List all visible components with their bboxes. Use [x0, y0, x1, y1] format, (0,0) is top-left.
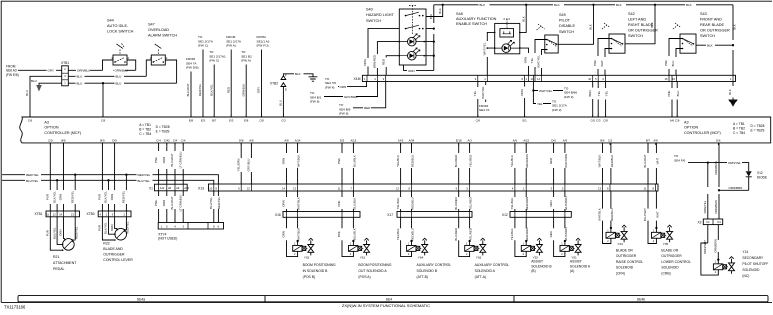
- svg-text:OR OUTRIGGER: OR OUTRIGGER: [700, 29, 730, 33]
- svg-text:SE4 F/6: SE4 F/6: [674, 158, 685, 162]
- wire BLU/BLK Y61 b: [352, 143, 354, 184]
- svg-text:(FW 2): (FW 2): [552, 108, 561, 112]
- wire XTB0 pin wires to pot: [102, 217, 115, 240]
- wire RED/BLU Y64 d: [411, 191, 413, 212]
- wire WHT/YEL pigtail FROM SE4 7A: [485, 82, 487, 103]
- svg-text:S42: S42: [628, 12, 635, 16]
- svg-text:CONTROL LEVER: CONTROL LEVER: [103, 258, 133, 262]
- svg-text:ORN/BRN: ORN/BRN: [714, 239, 718, 252]
- wire WHT/BLK Y62 b: [297, 143, 299, 184]
- svg-text:PUR: PUR: [46, 230, 50, 236]
- svg-text:PILOT SHUTOFF: PILOT SHUTOFF: [742, 262, 768, 266]
- wire YEL pilot sw: [535, 40, 547, 76]
- wire ORN aux right: [520, 48, 529, 75]
- svg-text:WHT/ORN: WHT/ORN: [564, 154, 568, 168]
- svg-text:ORN: ORN: [162, 157, 166, 163]
- svg-text:E/8: E/8: [244, 119, 249, 123]
- wire RED/ORN Y52 b: [525, 143, 527, 184]
- svg-text:RED/ORN: RED/ORN: [525, 197, 529, 210]
- svg-text:SECONDARY: SECONDARY: [742, 256, 764, 260]
- svg-text:14/3: 14/3: [398, 139, 404, 143]
- wire RED/YEL XTB1: [74, 175, 76, 211]
- svg-text:OPTION: OPTION: [684, 126, 698, 130]
- wire BLK pilot sw to bus: [558, 5, 593, 45]
- svg-text:RED/YEL: RED/YEL: [217, 196, 221, 209]
- svg-text:ORN/BRN: ORN/BRN: [714, 161, 718, 174]
- svg-text:GRY/BLU: GRY/BLU: [247, 159, 251, 172]
- wire PNK Y61 wrap: [342, 217, 353, 256]
- svg-text:ORN: ORN: [363, 59, 367, 65]
- solenoid Y52: [521, 245, 530, 251]
- svg-text:BLK/YEL: BLK/YEL: [104, 222, 108, 234]
- svg-text:X16: X16: [275, 213, 281, 217]
- svg-text:(B): (B): [531, 269, 535, 273]
- svg-text:BLK: BLK: [733, 24, 737, 30]
- svg-text:SWITCH: SWITCH: [700, 34, 715, 38]
- wire ORN Y62 c: [286, 191, 288, 212]
- svg-text:B/9: B/9: [100, 139, 105, 143]
- svg-text:YEL/BLK: YEL/BLK: [510, 198, 514, 210]
- svg-text:SOLENOID: SOLENOID: [616, 266, 634, 270]
- svg-text:BLK: BLK: [728, 89, 732, 95]
- svg-text:ORN: ORN: [282, 200, 286, 206]
- svg-text:SE4b: SE4b: [637, 297, 645, 301]
- svg-text:YEL/BLK: YEL/BLK: [396, 228, 400, 240]
- wire BLK aux right to bus: [520, 5, 526, 33]
- svg-text:RED/BLU: RED/BLU: [411, 228, 415, 241]
- lamp LED3: [495, 47, 520, 49]
- solenoid Y34: [606, 232, 615, 238]
- svg-text:C/6: C/6: [591, 119, 596, 123]
- wire RED/BLU Y34 b: [610, 143, 612, 184]
- lamp LED1: [399, 41, 426, 43]
- svg-text:D/8: D/8: [239, 139, 244, 143]
- svg-text:Y14: Y14: [742, 250, 748, 254]
- svg-text:ASSIST: ASSIST: [531, 260, 543, 264]
- svg-text:GRY/RED: GRY/RED: [344, 95, 358, 99]
- svg-text:BLK: BLK: [707, 44, 713, 48]
- svg-text:S43: S43: [700, 12, 707, 16]
- svg-text:XTB2: XTB2: [270, 82, 278, 86]
- wire XTB1 pin wires to pot: [50, 217, 62, 250]
- svg-text:S48: S48: [456, 12, 463, 16]
- svg-text:ORN: ORN: [524, 57, 528, 63]
- svg-text:C = TB4: C = TB4: [733, 131, 745, 135]
- svg-text:SWITCH: SWITCH: [628, 34, 643, 38]
- svg-text:DISABLE: DISABLE: [559, 24, 576, 28]
- svg-text:B/7: B/7: [646, 139, 651, 143]
- wire ORN Y62 wrap: [287, 217, 298, 256]
- svg-text:YEL: YEL: [604, 90, 608, 96]
- wire BLU/YEL bus: [2, 180, 214, 184]
- wire BLU/WHT Y35 wrap: [648, 191, 656, 244]
- svg-text:D4: D4: [717, 220, 721, 224]
- svg-text:(FW F/J): (FW F/J): [257, 44, 269, 48]
- svg-text:BLU/YEL: BLU/YEL: [26, 179, 39, 183]
- wire RED/YEL bus: [2, 175, 218, 184]
- svg-text:(FW 2): (FW 2): [564, 95, 573, 99]
- svg-text:DIODE: DIODE: [757, 176, 767, 180]
- wire BLU drop at 103: [102, 83, 104, 116]
- svg-text:X12: X12: [502, 213, 508, 217]
- svg-text:BLK/YEL: BLK/YEL: [52, 227, 56, 239]
- wire RED/BLU Y64 coil feed: [411, 217, 413, 245]
- svg-text:SOLENOID: SOLENOID: [742, 268, 760, 272]
- svg-text:ORN/WHT: ORN/WHT: [703, 240, 707, 254]
- svg-text:RED/YEL: RED/YEL: [26, 173, 39, 177]
- wire PUR XTB0: [101, 143, 103, 211]
- potentiometer R21: [63, 239, 75, 251]
- svg-text:BLU/RED: BLU/RED: [454, 228, 458, 241]
- svg-text:X13: X13: [198, 186, 204, 190]
- svg-text:OR OUTRIGGER: OR OUTRIGGER: [628, 29, 658, 33]
- svg-text:C = TB4: C = TB4: [139, 132, 151, 136]
- svg-text:(FW A): (FW A): [226, 44, 236, 48]
- svg-text:ZX(N)W-IN SYSTEM FUNCTIONAL SC: ZX(N)W-IN SYSTEM FUNCTIONAL SCHEMATIC: [342, 303, 430, 308]
- wire RED/ORN Y52 coil feed: [525, 217, 527, 245]
- svg-text:E/18: E/18: [456, 139, 462, 143]
- svg-text:BLU: BLU: [116, 82, 122, 86]
- wire RED/YEL XTB0: [125, 175, 127, 211]
- svg-text:OVERLOAD: OVERLOAD: [148, 28, 169, 32]
- svg-text:D/6: D/6: [716, 139, 721, 143]
- controller A3 OPTION CONTROLLER (MCF): [20, 117, 771, 143]
- svg-text:S49: S49: [559, 13, 566, 17]
- svg-text:YEL: YEL: [530, 57, 534, 63]
- svg-text:WHT/BLK: WHT/BLK: [297, 197, 301, 210]
- wire WHT/ORN Y51 coil feed: [564, 217, 566, 245]
- svg-text:C/2: C/2: [608, 139, 613, 143]
- svg-text:RED: RED: [549, 231, 553, 237]
- svg-text:A/15: A/15: [351, 139, 357, 143]
- svg-text:ORN/BRN: ORN/BRN: [714, 200, 718, 213]
- svg-text:A/6: A/6: [513, 139, 518, 143]
- svg-text:WHT/ORN: WHT/ORN: [564, 227, 568, 241]
- svg-text:BLK: BLK: [480, 3, 486, 7]
- wire YEL/BLK Y52 wrap: [515, 217, 526, 256]
- svg-text:Y35: Y35: [663, 242, 669, 246]
- svg-text:D/9: D/9: [112, 139, 117, 143]
- svg-text:RED/YEL: RED/YEL: [74, 226, 78, 239]
- svg-text:C/3: C/3: [281, 119, 286, 123]
- wire BLK/YEL XTB0: [108, 180, 110, 211]
- svg-text:YEL: YEL: [597, 90, 601, 96]
- wire RED/BLU Y34 coil feed: [610, 191, 612, 232]
- svg-text:AUXILIARY FUNCTION: AUXILIARY FUNCTION: [456, 17, 497, 21]
- svg-text:D/3: D/3: [340, 139, 345, 143]
- wire BLU to ground: [39, 83, 62, 85]
- svg-text:LT GRN/BLU: LT GRN/BLU: [178, 152, 182, 169]
- svg-text:E/1: E/1: [522, 119, 527, 123]
- wire WHT/BLK Y34 wrap: [603, 191, 611, 244]
- wire YEL/RED Y63 d: [469, 191, 471, 212]
- svg-text:BOOM POSITIONING: BOOM POSITIONING: [358, 263, 391, 267]
- svg-text:RED/YEL: RED/YEL: [138, 173, 151, 177]
- svg-text:(FW D/6): (FW D/6): [186, 66, 199, 70]
- svg-text:X3: X3: [698, 220, 702, 224]
- svg-text:RED/ORN: RED/ORN: [525, 154, 529, 167]
- svg-text:ORN/YEL: ORN/YEL: [703, 200, 707, 213]
- wire RED Y51 c: [553, 191, 555, 212]
- svg-text:E/3: E/3: [229, 119, 234, 123]
- svg-text:BLU/BLK: BLU/BLK: [352, 228, 356, 240]
- svg-text:A/8: A/8: [284, 139, 289, 143]
- wire YEL/GRN to X13: [240, 143, 242, 184]
- svg-text:WHT: WHT: [655, 211, 659, 218]
- svg-text:C/3: C/3: [596, 119, 601, 123]
- svg-text:FRONT AND: FRONT AND: [700, 18, 722, 22]
- svg-text:(POS A): (POS A): [358, 275, 370, 279]
- svg-text:IN SOLENOID B: IN SOLENOID B: [303, 269, 328, 273]
- svg-text:A12: A12: [160, 187, 165, 190]
- svg-text:RED: RED: [381, 59, 385, 65]
- lamp LED2: [399, 55, 426, 57]
- svg-text:BLU: BLU: [671, 61, 675, 67]
- svg-text:PNK: PNK: [154, 157, 158, 163]
- svg-text:Y64: Y64: [418, 255, 424, 259]
- svg-text:A/8: A/8: [249, 139, 254, 143]
- svg-text:RED: RED: [549, 158, 553, 164]
- svg-text:(NOT USED): (NOT USED): [158, 237, 177, 241]
- svg-text:PNK: PNK: [667, 90, 671, 96]
- svg-text:PNK: PNK: [154, 200, 158, 206]
- wire YEL/BLK Y52 c: [514, 191, 516, 212]
- svg-text:BLU: BLU: [279, 100, 283, 106]
- svg-text:C/8: C/8: [603, 119, 608, 123]
- svg-text:ASSIST: ASSIST: [570, 260, 582, 264]
- svg-text:A/15: A/15: [523, 139, 529, 143]
- svg-text:ORN: ORN: [282, 231, 286, 237]
- svg-text:(FW A): (FW A): [241, 59, 251, 63]
- svg-text:RED: RED: [549, 200, 553, 206]
- svg-text:LOWER CONTROL: LOWER CONTROL: [661, 260, 691, 264]
- wire RED Y51 a: [553, 143, 555, 184]
- svg-text:ORN/BLU: ORN/BLU: [115, 69, 128, 73]
- svg-text:C/4: C/4: [173, 139, 178, 143]
- svg-text:BLK: BLK: [521, 16, 525, 22]
- wire BLK hazard right 2: [426, 5, 443, 17]
- svg-text:C/6: C/6: [675, 119, 680, 123]
- svg-text:(FW 6): (FW 6): [339, 112, 348, 116]
- wire PNK s42: [598, 39, 612, 76]
- svg-text:WHT: WHT: [655, 157, 659, 164]
- wire ORN/YEL to X3: [707, 163, 709, 219]
- svg-text:OUTRIGGER: OUTRIGGER: [661, 254, 682, 258]
- svg-text:YEL/BLK: YEL/BLK: [396, 198, 400, 210]
- svg-text:PILOT: PILOT: [559, 19, 571, 23]
- wire BLU/WHT to X1: [174, 143, 176, 184]
- svg-text:HAZARD LIGHT: HAZARD LIGHT: [366, 13, 395, 17]
- wire LT GRN/BLU to X1: [182, 143, 184, 184]
- wire YEL bar to controller 3: [605, 82, 607, 117]
- wire BLU/BLK Y61 coil feed: [352, 217, 354, 245]
- wire ORN/YEL to diode: [688, 163, 749, 171]
- svg-text:(A): (A): [570, 269, 574, 273]
- wire BLU bar to controller: [676, 82, 678, 117]
- wire ORN/WHT X3 to Y14 wrap: [701, 225, 718, 276]
- svg-text:BLK/YEL: BLK/YEL: [52, 191, 56, 203]
- svg-text:RED/YEL: RED/YEL: [122, 190, 126, 203]
- wire WHT/BLK Y62 d: [297, 191, 299, 212]
- solenoid Y62: [293, 245, 302, 251]
- svg-text:OUTRIGGER: OUTRIGGER: [616, 254, 637, 258]
- svg-text:B/7: B/7: [212, 119, 217, 123]
- svg-text:BLK/WHT: BLK/WHT: [186, 83, 190, 96]
- potentiometer R22: [115, 228, 127, 240]
- svg-text:C/6: C/6: [28, 119, 33, 123]
- svg-text:BLADE AND: BLADE AND: [103, 247, 123, 251]
- svg-text:C/4: C/4: [181, 139, 186, 143]
- wire BLU s43: [676, 49, 683, 76]
- svg-text:BLU/WHT: BLU/WHT: [643, 208, 647, 221]
- svg-text:TX1173166: TX1173166: [4, 304, 26, 309]
- svg-text:BLK: BLK: [438, 8, 442, 14]
- wire YEL/BLK Y64 wrap: [401, 217, 412, 256]
- wire YEL/BLK Y64 a: [400, 143, 402, 184]
- wire YEL bar to controller 2: [597, 82, 599, 117]
- svg-text:BLU: BLU: [676, 91, 680, 97]
- svg-text:XTB1: XTB1: [61, 61, 69, 65]
- svg-text:RED/BLU: RED/BLU: [610, 208, 614, 221]
- wire YEL/RED Y63 b: [469, 143, 471, 184]
- svg-text:BLK: BLK: [295, 72, 301, 76]
- svg-text:Y62: Y62: [304, 255, 310, 259]
- svg-text:S44: S44: [107, 19, 114, 23]
- svg-text:SE4: SE4: [386, 297, 393, 301]
- svg-text:RED/YEL: RED/YEL: [198, 83, 202, 96]
- svg-text:BLADE OR: BLADE OR: [616, 249, 633, 253]
- svg-text:BLU: BLU: [77, 75, 83, 79]
- wire PNK bar to controller: [671, 82, 673, 117]
- wire BLU/RED Y63 a: [458, 143, 460, 184]
- svg-text:X1M: X1M: [354, 77, 361, 81]
- svg-text:ORN: ORN: [110, 224, 114, 230]
- wire BRN bar to controller: [592, 82, 594, 117]
- wire BLU/BLK Y61 d: [352, 191, 354, 212]
- wire PNK to X1: [158, 143, 160, 184]
- wire WHT/ORN Y51 d: [564, 191, 566, 212]
- svg-text:WHT: WHT: [600, 60, 604, 67]
- svg-text:(FW 4): (FW 4): [325, 85, 334, 89]
- wire PUR XTB1: [49, 143, 51, 211]
- svg-text:A3: A3: [684, 120, 689, 124]
- svg-text:BRN/RED: BRN/RED: [373, 55, 377, 68]
- svg-text:BLU: BLU: [31, 79, 37, 83]
- svg-text:GRY: GRY: [257, 87, 261, 93]
- wire YEL branch TO SE texts: [533, 82, 551, 104]
- svg-text:C/9: C/9: [48, 139, 53, 143]
- svg-text:(FW 6): (FW 6): [310, 100, 319, 104]
- svg-text:SWITCH: SWITCH: [366, 19, 381, 23]
- svg-text:RED/YEL: RED/YEL: [70, 190, 74, 203]
- svg-text:BLU/YEL: BLU/YEL: [138, 179, 151, 183]
- svg-text:RAISE CONTROL: RAISE CONTROL: [616, 260, 643, 264]
- svg-text:RED/ORN: RED/ORN: [525, 228, 529, 241]
- svg-text:SOLENOID B: SOLENOID B: [531, 264, 552, 268]
- svg-text:R22: R22: [103, 242, 109, 246]
- wire PNK Y61 c: [341, 191, 343, 212]
- wire WHT s42: [605, 49, 612, 76]
- svg-text:A/34: A/34: [409, 139, 415, 143]
- svg-text:S47: S47: [148, 23, 155, 27]
- svg-text:YEL/BLK: YEL/BLK: [510, 228, 514, 240]
- svg-text:C/4: C/4: [156, 139, 161, 143]
- svg-text:BLU/WHT: BLU/WHT: [643, 154, 647, 167]
- svg-text:YEL: YEL: [473, 90, 477, 96]
- svg-text:SE4a: SE4a: [137, 297, 145, 301]
- svg-text:(CR4): (CR4): [616, 271, 625, 275]
- wire YEL/BLK Y52 a: [514, 143, 516, 184]
- wire RED/YEL X13 to XTY4: [217, 191, 219, 223]
- svg-text:WHT/BLK: WHT/BLK: [598, 155, 602, 168]
- wire BLU/YEL X13 to XTY4: [213, 191, 215, 223]
- svg-text:C/9: C/9: [101, 119, 106, 123]
- svg-text:RED: RED: [364, 106, 371, 110]
- svg-text:WHT/BLK: WHT/BLK: [598, 208, 602, 221]
- svg-text:OUT SOLENOID A: OUT SOLENOID A: [358, 269, 387, 273]
- diode V12: [746, 171, 752, 176]
- svg-text:YEL: YEL: [537, 102, 543, 106]
- svg-text:OPTION: OPTION: [44, 126, 58, 130]
- svg-text:SOLENOID B: SOLENOID B: [417, 269, 438, 273]
- svg-text:ORN: ORN: [520, 89, 524, 95]
- svg-text:PEDAL: PEDAL: [53, 267, 65, 271]
- wire YEL/BLK Y64 c: [400, 191, 402, 212]
- wire WHT/BLK Y62 coil feed: [297, 217, 299, 245]
- svg-text:ORN: ORN: [59, 194, 63, 200]
- wire GRY/BLU to X13: [250, 143, 252, 184]
- svg-text:YEL/RED: YEL/RED: [469, 228, 473, 240]
- wire ORN/BRN X3 to Y14: [717, 225, 719, 264]
- svg-text:BLU/BLK: BLU/BLK: [352, 197, 356, 209]
- svg-text:ENABLE SWITCH: ENABLE SWITCH: [456, 22, 487, 26]
- svg-text:PUR: PUR: [46, 194, 50, 200]
- svg-text:Y34: Y34: [617, 242, 623, 246]
- svg-text:ORN/BLU: ORN/BLU: [77, 69, 90, 73]
- svg-text:A13: A13: [184, 187, 189, 190]
- svg-text:BLU/WHT: BLU/WHT: [170, 153, 174, 166]
- solenoid Y64: [407, 245, 416, 251]
- svg-text:RED/BLU: RED/BLU: [411, 197, 415, 210]
- wire BLU/WHT Y35 a: [647, 143, 649, 184]
- wire BLK hazard right: [426, 5, 434, 71]
- svg-text:BLK: BLK: [650, 22, 654, 28]
- svg-text:PUR: PUR: [98, 194, 102, 200]
- svg-text:WHT/BLK: WHT/BLK: [297, 155, 301, 168]
- svg-text:ORN: ORN: [59, 229, 63, 235]
- svg-text:SWITCH: SWITCH: [559, 30, 574, 34]
- svg-text:E/8: E/8: [189, 119, 194, 123]
- wire BLU/RED Y63 wrap: [459, 217, 470, 256]
- svg-text:C4: C4: [706, 220, 710, 224]
- svg-text:(ATT-A): (ATT-A): [475, 275, 486, 279]
- svg-text:AUXILIARY CONTROL: AUXILIARY CONTROL: [475, 263, 510, 267]
- svg-text:BLU: BLU: [25, 90, 29, 96]
- wire BLU to controller C/6: [30, 76, 62, 116]
- solenoid Y14: [713, 264, 722, 270]
- wire YEL bar to controller: [477, 82, 479, 117]
- svg-text:BOOM POSITIONING: BOOM POSITIONING: [303, 263, 336, 267]
- svg-text:SE4 7A: SE4 7A: [479, 108, 490, 112]
- svg-text:LOCK SWITCH: LOCK SWITCH: [107, 30, 134, 34]
- svg-text:BLU/RED: BLU/RED: [454, 155, 458, 168]
- svg-text:E = TB29: E = TB29: [156, 130, 170, 134]
- svg-text:ORN: ORN: [282, 158, 286, 164]
- wire PNK X1 to XTY4: [158, 191, 160, 223]
- solenoid Y51: [560, 245, 569, 251]
- wire BLU/RED Y63 c: [458, 191, 460, 212]
- svg-text:A/8: A/8: [653, 139, 658, 143]
